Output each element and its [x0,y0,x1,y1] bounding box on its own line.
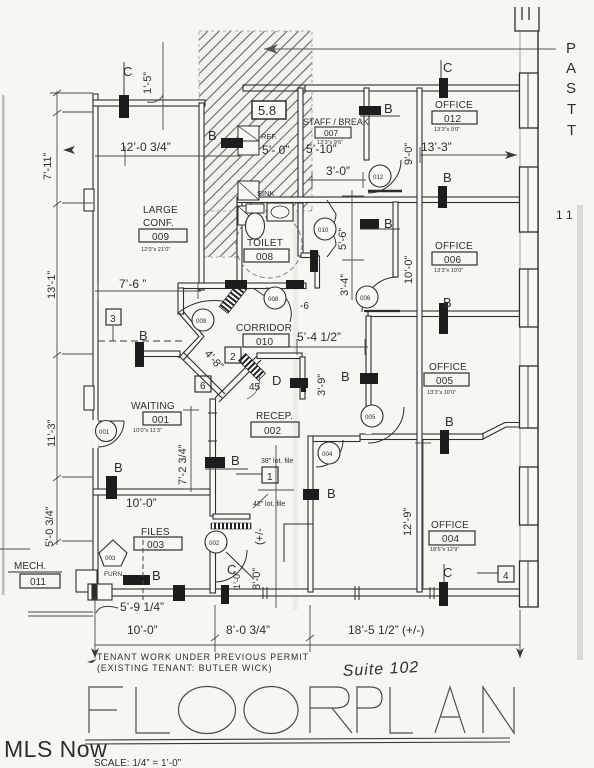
bar B kitchen [221,138,243,148]
bar C office004 south [439,582,448,606]
svg-text:010: 010 [318,227,329,234]
svg-text:1’-5”: 1’-5” [142,72,154,94]
bar B toilet south right [286,280,304,289]
scan streak center [293,200,298,610]
kitchen labels [257,132,277,223]
svg-text:3’-4”: 3’-4” [339,274,351,296]
svg-text:S: S [566,80,576,97]
svg-text:18’6”x 12’9”: 18’6”x 12’9” [430,547,459,553]
svg-text:002: 002 [209,540,220,547]
scan streak right margin [577,205,583,660]
svg-text:8’-0”: 8’-0” [251,568,263,590]
door 001 arc [93,420,125,448]
bar B corridor east [360,219,379,229]
svg-text:1 1: 1 1 [556,208,573,222]
svg-text:5.8: 5.8 [258,103,276,118]
svg-text:SINK: SINK [257,189,275,198]
room label office 012 [432,100,477,133]
wall waiting south [93,489,214,495]
pier 6 [520,561,539,607]
letter F [89,687,123,733]
dimension texts horizontal [119,140,452,637]
svg-text:001: 001 [99,429,110,436]
dim line 5'-4 1/2 [252,339,368,355]
bar B staff [359,106,381,115]
svg-text:001: 001 [152,415,170,426]
svg-text:3’-9”: 3’-9” [316,374,328,396]
svg-text:FURN.: FURN. [104,571,124,578]
wall toilet east lower [298,203,303,256]
svg-text:12’-0 3/4”: 12’-0 3/4” [120,140,171,154]
letter L2 [390,687,413,733]
wall west exterior [93,94,98,597]
bar B door6 [205,457,225,468]
svg-text:010: 010 [256,337,274,348]
svg-text:B: B [384,101,393,116]
bar B toilet south left [225,280,247,289]
leader 1 box [236,473,262,475]
dim squiggle 5'-9 [96,606,118,613]
svg-text:007: 007 [324,128,338,138]
wall corridor east stub [315,256,320,288]
svg-text:OFFICE: OFFICE [435,100,473,111]
left dimension chain line [50,90,93,545]
title FLOOR PLAN outline [89,687,514,734]
svg-text:-6: -6 [300,301,309,312]
dim line 13'-3 [420,147,517,163]
svg-text:A: A [566,60,576,77]
bottom wall door frame ticks [263,586,434,600]
svg-text:002: 002 [264,426,282,437]
svg-text:CONF.: CONF. [143,218,174,229]
svg-text:B: B [443,295,452,310]
window mark west wall lower [84,386,94,410]
svg-text:18’-5 1/2” (+/-): 18’-5 1/2” (+/-) [348,623,424,637]
key box 5.8 [252,101,286,119]
svg-text:B: B [445,414,454,429]
svg-text:T: T [567,122,576,139]
svg-text:B: B [341,369,350,384]
svg-text:TENANT WORK UNDER PREVIOUS: TENANT WORK UNDER PREVIOUS PERMIT [97,652,309,662]
mech closet boxes [76,570,112,600]
wall toilet south / corridor north [178,283,306,289]
bar node D stub fill [301,384,306,392]
svg-text:WAITING: WAITING [131,401,175,412]
bottom left double lines [0,549,93,616]
svg-text:5’- 0”: 5’- 0” [262,143,289,157]
room label office 004 [429,520,475,553]
svg-text:7’-2 3/4”: 7’-2 3/4” [177,444,189,485]
svg-text:OFFICE: OFFICE [429,362,467,373]
svg-text:5’-0 3/4”: 5’-0 3/4” [44,506,56,547]
svg-text:P: P [566,40,576,57]
walls [93,85,520,597]
svg-text:1: 1 [267,472,273,483]
svg-text:012: 012 [444,114,462,125]
svg-text:5’-9 1/4”: 5’-9 1/4” [120,600,164,614]
svg-text:5’-4 1/2”: 5’-4 1/2” [297,330,341,344]
bar B office004 west wall [303,489,319,500]
svg-text:MECH.: MECH. [14,561,46,572]
wall marker bars black [106,78,449,606]
dimension texts rotated [42,72,415,590]
svg-text:009: 009 [152,232,170,243]
room label staff/break [303,117,369,146]
letter labels [114,60,454,583]
files dashed line [142,540,144,600]
cased opening hash band [211,523,251,529]
svg-text:13’3”x 9’0”: 13’3”x 9’0” [434,127,460,133]
svg-text:B: B [231,453,240,468]
svg-text:006: 006 [360,295,371,302]
door 006 arc [356,277,400,312]
letter A [435,687,465,733]
note 42 lot file [253,494,285,508]
wall recep-office004 north [312,436,360,442]
pier 3 [520,269,539,327]
svg-text:10’0”x 11’3”: 10’0”x 11’3” [133,428,162,434]
wall corridor funnel east diagonal [215,356,261,402]
wall corridor funnel west diagonal [179,352,225,398]
svg-text:13’-1”: 13’-1” [46,271,58,299]
letter O1 [179,687,236,734]
svg-text:004: 004 [322,451,333,458]
svg-text:42” lot. file: 42” lot. file [253,501,285,508]
bar B office012 bottom [438,186,447,208]
door 004 arc [316,440,343,467]
svg-text:38” lot. file: 38” lot. file [261,458,293,465]
room label office 005 [424,362,469,396]
svg-text:TOILET: TOILET [247,238,283,249]
office004 corner step [284,524,313,562]
jamb ticks recep door [208,413,217,441]
door 012 arc [368,160,402,193]
svg-text:13’3”x 10’0”: 13’3”x 10’0” [434,268,463,274]
dim vertical 12'-9 [415,440,431,589]
letter L1 [136,687,170,733]
door 002 arc [205,531,254,582]
wall staff east upper [364,88,369,160]
svg-text:13’3”x 10’0”: 13’3”x 10’0” [427,390,456,396]
svg-text:B: B [208,128,217,143]
svg-text:10’-0”: 10’-0” [126,496,157,510]
room label toilet [244,238,289,263]
svg-text:5’-6”: 5’-6” [337,228,349,250]
svg-text:11’-3”: 11’-3” [46,419,58,447]
svg-text:006: 006 [444,255,462,266]
bar bottom wall left [173,585,185,601]
wall office005 south jog [482,423,520,440]
dashed soffit line large conf [98,340,182,342]
svg-text:2: 2 [230,352,236,363]
wall waiting north [139,351,180,357]
wall large conf east [199,103,204,290]
svg-text:B: B [114,460,123,475]
door 005 arc [361,405,404,443]
svg-text:B: B [139,328,148,343]
bar B files [123,575,150,585]
svg-text:T: T [567,101,576,118]
svg-text:45: 45 [249,382,261,393]
room label corridor [236,323,292,348]
svg-text:10’-0”: 10’-0” [127,623,158,637]
wall office006 south [368,311,520,317]
bar B office004 north [440,430,449,454]
svg-text:7’-6 ”: 7’-6 ” [119,277,146,291]
svg-text:C: C [227,562,236,577]
wall hall step [213,514,250,519]
room label large conf [139,205,187,253]
room label recep [251,411,299,437]
svg-text:LARGE: LARGE [143,205,178,216]
toilet turning circle [236,212,302,278]
door D swing arc [247,375,260,399]
svg-text:STAFF / BREAK: STAFF / BREAK [303,117,369,127]
door 003 pentagon [99,540,127,578]
svg-text:003: 003 [147,540,165,551]
svg-text:MLS Now: MLS Now [4,736,107,762]
left arrow 12-0 dim [63,146,75,154]
svg-text:3’-0”: 3’-0” [326,164,350,178]
wall alcove low [301,253,318,258]
leader C office012 [440,60,442,78]
svg-text:009: 009 [196,318,207,325]
svg-text:RECEP.: RECEP. [256,411,293,422]
room label office 006 [432,241,477,274]
svg-text:10’-0”: 10’-0” [403,256,415,284]
wall offices west common [417,88,422,592]
underlines for letters [205,116,400,469]
svg-text:CORRIDOR: CORRIDOR [236,323,292,334]
bar B recep east [360,373,378,384]
svg-text:12’-9”: 12’-9” [402,508,414,536]
svg-text:(+/-: (+/- [254,528,266,545]
leader C top-left [123,62,125,95]
svg-text:OFFICE: OFFICE [431,520,469,531]
door 009 leaf hatched [219,283,246,313]
number boxes [106,309,514,582]
bar B large conf [135,342,144,367]
svg-text:B: B [152,568,161,583]
room label waiting [131,401,181,434]
svg-text:7’-11”: 7’-11” [42,152,54,180]
wall toilet west [237,201,242,288]
kitchen counter boxes [238,126,259,225]
svg-text:005: 005 [365,414,376,421]
pier 2 [520,167,539,232]
MECH label [8,561,62,588]
pier inner lines [527,73,529,607]
wall office005 west [366,316,371,406]
svg-text:13’-3”: 13’-3” [421,140,452,154]
svg-text:003: 003 [105,555,116,562]
pier 5 [520,467,539,525]
dim line 12'-0 3/4 [95,146,240,166]
svg-text:C: C [443,60,452,75]
svg-text:004: 004 [442,534,460,545]
toilet sink [267,203,293,221]
pier 4 [520,366,539,428]
wall north left section [93,100,205,106]
svg-text:13’3”x 9’6”: 13’3”x 9’6” [317,140,343,146]
wall north under hatch [243,85,305,91]
leader C office004 [443,564,445,582]
door 008 arc [253,287,291,322]
hatched demo wall block [199,31,312,257]
right exterior wall line [515,7,539,607]
svg-text:008: 008 [256,252,274,263]
letter P [357,687,382,733]
window mark west wall upper [84,189,94,211]
wall kitchen-toilet east [298,88,303,203]
svg-text:9’-0”: 9’-0” [403,143,415,165]
svg-text:005: 005 [436,376,454,387]
bottom dimension line [91,598,524,658]
wall recep west [210,399,216,516]
svg-text:B: B [443,170,452,185]
door 010 double-acting [314,200,336,257]
toilet fixture [246,204,265,239]
leader 4 box [477,572,498,574]
letter R [310,687,352,733]
wall office006 west [393,202,398,277]
dim vertical 5'-6 / 3'-4 [342,190,364,300]
wall jog SE of large conf [178,288,184,314]
wall files east below door [210,549,216,593]
bar bottom wall center [221,585,229,604]
svg-text:12’0”x 21’0”: 12’0”x 21’0” [141,247,170,253]
dim vertical 7'-2 3/4 [183,406,199,492]
note PASTT [566,40,576,139]
column top channel [515,7,539,31]
svg-text:FILES: FILES [141,527,170,538]
svg-text:D: D [272,373,281,388]
svg-text:(EXISTING TENANT: BUTLER WI: (EXISTING TENANT: BUTLER WICK) [97,663,272,673]
wall office005 south [360,434,483,440]
leader line top [264,44,556,54]
svg-text:012: 012 [373,174,384,181]
dim vertical 8'-0 +/- [258,445,294,608]
pier 1 [520,73,539,128]
svg-text:B: B [327,486,336,501]
wall office004 west [308,436,313,592]
bar C top-left [119,95,129,118]
svg-text:8’-0 3/4”: 8’-0 3/4” [226,623,270,637]
wall north right section [305,85,520,91]
wall chamfer 1 [179,312,205,361]
svg-text:011: 011 [30,577,46,588]
leader 3 box [112,326,114,341]
svg-text:C: C [443,565,452,580]
svg-text:3: 3 [110,314,116,325]
svg-text:008: 008 [268,296,279,303]
svg-text:4: 4 [503,571,509,582]
title underline [85,738,510,744]
tenant note [97,652,309,673]
letter N [483,687,514,733]
wall stub vertical node D [300,357,305,399]
svg-text:OFFICE: OFFICE [435,241,473,252]
bar B office006 bottom [439,303,448,334]
dim line 3'-0 staff [308,172,366,188]
bar D recep [290,378,308,388]
letter O2 [244,687,298,734]
svg-text:REF.: REF. [261,132,277,141]
door D leaf hatched [239,354,266,381]
dim 1'-5 extension [147,42,163,130]
dim line 7'-6 [95,283,201,299]
svg-text:6: 6 [200,381,206,392]
wall recep north stub [257,353,302,359]
wall toilet north / staff south [237,197,520,203]
scan streak left edge [2,95,5,595]
door 009 arc [178,301,232,331]
bar C office012 top [439,78,448,98]
svg-text:C: C [123,64,132,79]
wall south exterior [93,589,520,596]
bar corridor east stub [310,250,318,272]
bar B waiting west [106,476,117,499]
room label files [134,527,182,551]
